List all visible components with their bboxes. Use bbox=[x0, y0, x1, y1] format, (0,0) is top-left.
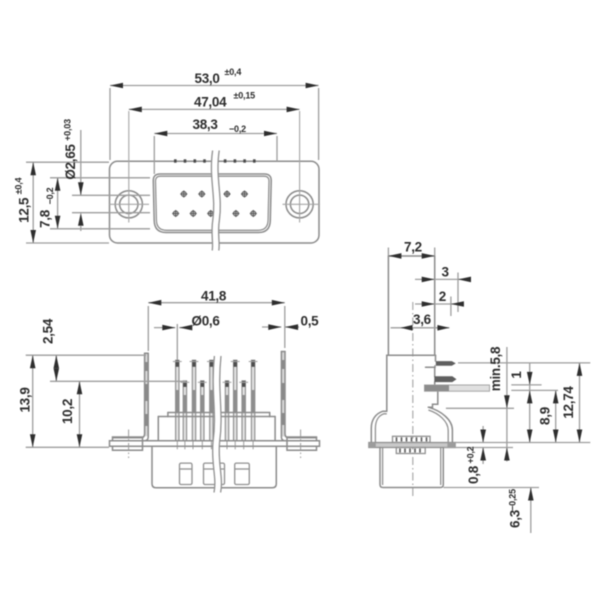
svg-text:6,3: 6,3 bbox=[508, 509, 523, 528]
dimension diameter 2,65 bbox=[80, 130, 82, 195]
solder pin ends row (front view) bbox=[174, 159, 256, 162]
insulator neck bbox=[168, 412, 270, 414]
dimension diameter 0,6 bbox=[154, 327, 175, 329]
svg-text:−0,2: −0,2 bbox=[229, 124, 246, 134]
svg-text:10,2: 10,2 bbox=[60, 399, 75, 424]
face between pins bbox=[435, 355, 437, 361]
svg-text:12,5: 12,5 bbox=[17, 197, 32, 223]
svg-text:min.5,8: min.5,8 bbox=[488, 346, 503, 391]
shell bottom extension line bbox=[444, 487, 540, 489]
keying hole 2 bbox=[204, 463, 225, 484]
svg-text:3: 3 bbox=[442, 265, 450, 280]
svg-text:−0,2: −0,2 bbox=[45, 187, 55, 204]
tick marks on pin tops bbox=[173, 362, 258, 383]
break line right bbox=[219, 356, 221, 493]
bell right inner bbox=[428, 410, 448, 443]
dimension 47,04 bbox=[129, 108, 300, 110]
dimension 0,8 bbox=[482, 426, 484, 443]
svg-text:2,54: 2,54 bbox=[41, 318, 56, 344]
dimension 38,3 bbox=[154, 133, 277, 135]
shell ground blade bbox=[425, 385, 490, 391]
break band (white) bbox=[213, 356, 222, 493]
dimension 2,54 bbox=[55, 355, 57, 381]
svg-text:7,2: 7,2 bbox=[404, 240, 422, 255]
dimension min 5,8 bbox=[506, 347, 508, 462]
front shell bbox=[380, 448, 443, 488]
svg-text:Ø2,65: Ø2,65 bbox=[63, 144, 78, 180]
right shell leg (flat pin) bbox=[285, 352, 317, 438]
centerline axis bbox=[412, 302, 414, 497]
left shell leg fill bbox=[145, 353, 149, 436]
connector front-view flange outline bbox=[110, 161, 320, 243]
shell slot below flange bbox=[396, 448, 425, 454]
pin stubs through flange bbox=[176, 441, 178, 449]
svg-text:13,9: 13,9 bbox=[18, 387, 33, 412]
housing front face upper bbox=[434, 256, 436, 355]
mounting flange bar bbox=[110, 440, 319, 442]
D-sub shell inner bbox=[155, 176, 269, 230]
ear hole axes bbox=[129, 430, 301, 459]
pin2 extension line bbox=[511, 384, 541, 386]
svg-text:3,6: 3,6 bbox=[413, 312, 432, 327]
bell left inner bbox=[375, 414, 386, 443]
dimension 6,3 bbox=[530, 488, 532, 534]
tall solder pins (back row) bbox=[176, 360, 255, 441]
svg-text:Ø0,6: Ø0,6 bbox=[192, 314, 221, 329]
dimension 10,2 bbox=[79, 381, 81, 447]
break line right bbox=[218, 151, 220, 251]
pin3 extension line bbox=[511, 389, 558, 391]
mounting flange slab bbox=[369, 443, 455, 448]
housing top edge bbox=[388, 255, 434, 257]
dimension 3,6 bbox=[391, 327, 450, 329]
svg-text:53,0: 53,0 bbox=[195, 71, 220, 86]
rear insulator body bbox=[152, 446, 276, 487]
right ear block bbox=[287, 437, 320, 450]
dimension 12,5 bbox=[32, 162, 34, 243]
dimension 7,8 bbox=[57, 178, 59, 229]
dimension 8,9 bbox=[555, 390, 557, 442]
svg-text:7,8: 7,8 bbox=[38, 209, 53, 228]
right mounting hole bbox=[286, 191, 313, 218]
svg-text:±0,4: ±0,4 bbox=[225, 67, 242, 77]
break line left bbox=[213, 356, 215, 493]
svg-text:1: 1 bbox=[509, 371, 524, 379]
pin 2 (front row) bbox=[434, 376, 456, 382]
svg-text:±0,4: ±0,4 bbox=[14, 177, 24, 194]
dimension 41,8 bbox=[148, 302, 284, 304]
svg-text:±0,15: ±0,15 bbox=[234, 91, 256, 101]
svg-text:+0,2: +0,2 bbox=[466, 446, 476, 463]
short solder pins (front row) bbox=[183, 381, 245, 441]
svg-text:12,74: 12,74 bbox=[561, 386, 576, 419]
dimension 3 bbox=[415, 278, 470, 280]
shoulder edge bbox=[387, 354, 436, 356]
dimension 53,0 bbox=[110, 85, 319, 87]
keying hole 1 bbox=[180, 463, 193, 484]
svg-text:−0,25: −0,25 bbox=[508, 489, 518, 511]
bell right outer bbox=[428, 407, 452, 442]
svg-text:8,9: 8,9 bbox=[538, 407, 553, 425]
break line left bbox=[211, 151, 213, 251]
shell slot above flange bbox=[393, 436, 431, 442]
right shell leg fill bbox=[281, 352, 285, 437]
dimension 12,74 bbox=[579, 363, 581, 443]
pin1 extension line bbox=[458, 362, 590, 364]
left ear block bbox=[110, 437, 143, 450]
pins row1 (crosses) bbox=[180, 191, 248, 198]
dimension 0,5 bbox=[262, 326, 281, 328]
svg-text:+0,03: +0,03 bbox=[63, 119, 73, 141]
housing rear face bbox=[387, 256, 389, 411]
bell left outer bbox=[371, 411, 387, 442]
dimension 7,2 bbox=[387, 248, 389, 257]
flange top extension line bbox=[455, 442, 590, 444]
dimension 2 bbox=[415, 303, 464, 305]
left shell leg (flat pin) bbox=[113, 353, 145, 438]
left mounting hole bbox=[115, 191, 142, 218]
break band (white) bbox=[211, 151, 220, 251]
dimension 13,9 bbox=[32, 355, 34, 447]
keying hole 3 bbox=[235, 463, 250, 484]
svg-text:41,8: 41,8 bbox=[201, 289, 227, 304]
svg-text:38,3: 38,3 bbox=[193, 117, 219, 132]
svg-text:0,8: 0,8 bbox=[466, 465, 481, 484]
svg-text:2: 2 bbox=[439, 289, 446, 304]
dimension 1 bbox=[529, 363, 531, 443]
svg-text:47,04: 47,04 bbox=[194, 95, 227, 110]
pins row2 (crosses) bbox=[172, 210, 257, 217]
D-sub shell outer bbox=[153, 174, 271, 233]
pin 1 (back row) bbox=[436, 361, 456, 366]
flange bottom extension line bbox=[444, 447, 514, 449]
face below blade with steps bbox=[428, 391, 437, 407]
svg-text:0,5: 0,5 bbox=[301, 314, 320, 329]
blade lower extension line bbox=[446, 407, 514, 409]
